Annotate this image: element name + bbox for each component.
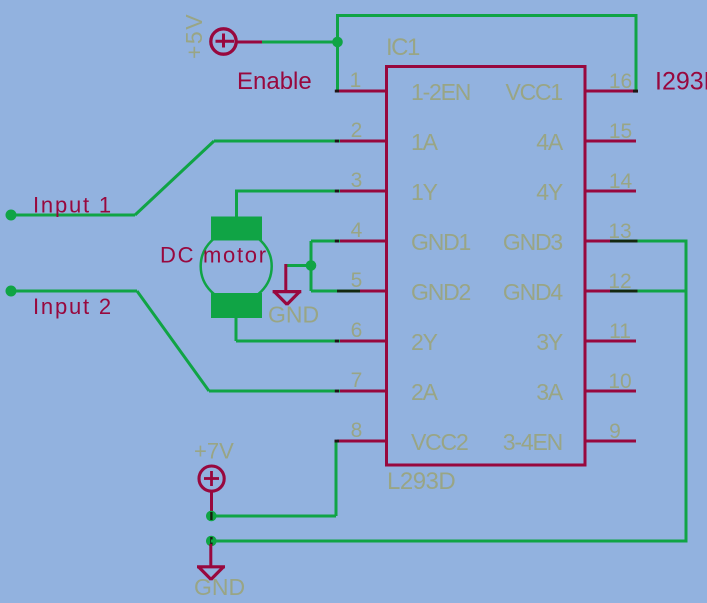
svg-text:I293D: I293D: [655, 68, 707, 96]
wire net INPUT2 diagonal: [137, 291, 209, 391]
overlap dark segment pin 5: [337, 290, 360, 293]
svg-text:2A: 2A: [411, 379, 439, 405]
wire bottom GND stem (maroon): [209, 544, 212, 567]
wire net ENABLE right vertical to pin 16: [635, 14, 638, 93]
pin 10 (3A): [536, 370, 636, 405]
svg-text:Enable: Enable: [237, 68, 312, 95]
wire net ENABLE left vertical to pin 1: [336, 14, 339, 93]
wire net INPUT1 to pin 2: [214, 140, 340, 143]
pin 5 (GND2): [337, 269, 471, 305]
svg-text:6: 6: [351, 319, 363, 342]
svg-text:1: 1: [350, 69, 362, 92]
svg-text:7: 7: [351, 369, 363, 392]
pin 3 (1Y): [337, 169, 438, 205]
pin 13 (GND3): [503, 220, 636, 255]
svg-text:15: 15: [609, 120, 632, 143]
wire GND1 net to pin 5: [311, 290, 360, 293]
pin 7 (2A): [337, 369, 439, 405]
wire motor bottom vertical: [235, 316, 238, 341]
svg-text:3: 3: [351, 169, 363, 192]
svg-text:3A: 3A: [536, 379, 564, 405]
svg-text:L293D: L293D: [387, 468, 455, 495]
overlap dark segment pin 12: [610, 290, 638, 293]
junction dot on GND1 net: [306, 260, 317, 271]
wire GND1 net left branch: [286, 264, 311, 267]
wire GND net to pin 13: [614, 240, 688, 243]
wire +5V source stub (maroon): [237, 41, 263, 44]
svg-text:1Y: 1Y: [411, 179, 438, 205]
overlap dark segment pin 8: [335, 440, 340, 443]
svg-text:9: 9: [609, 420, 621, 443]
svg-text:11: 11: [609, 320, 631, 343]
wire VCC2 net vertical from pin 8: [335, 441, 338, 516]
wire net ENABLE top horizontal: [336, 14, 638, 17]
pin 9 (3-4EN): [503, 420, 636, 455]
svg-text:4Y: 4Y: [536, 179, 563, 205]
ground symbol bottom: [197, 567, 225, 580]
wire net INPUT2 horizontal: [11, 290, 137, 293]
motor M1 body circle: [201, 231, 272, 302]
ground symbol near motor: [273, 292, 302, 305]
svg-text:4A: 4A: [536, 129, 564, 155]
junction dot at bottom GND node: [206, 536, 217, 547]
svg-text:8: 8: [351, 419, 363, 442]
wire GND1 net to pin 4: [311, 240, 340, 243]
pin 14 (4Y): [536, 170, 636, 205]
svg-text:GND4: GND4: [503, 279, 564, 305]
wire bottom GND net horizontal: [211, 540, 686, 543]
svg-text:Input 1: Input 1: [33, 193, 113, 218]
svg-text:3-4EN: 3-4EN: [503, 429, 562, 455]
svg-text:IC1: IC1: [386, 34, 420, 61]
wire bottom GND net right vertical: [685, 241, 688, 543]
junction dot on ENABLE net: [332, 37, 343, 48]
wire +7V stem (maroon): [210, 491, 213, 514]
svg-text:4: 4: [351, 219, 363, 242]
svg-text:14: 14: [609, 170, 633, 193]
svg-text:VCC2: VCC2: [411, 429, 468, 455]
node Input 2 terminal dot: [6, 286, 17, 297]
svg-text:Input 2: Input 2: [33, 294, 113, 319]
wire motor bottom to pin 6 horizontal: [236, 340, 340, 343]
svg-text:GND2: GND2: [411, 279, 471, 305]
motor M1 bottom terminal block: [211, 293, 262, 318]
svg-text:+7V: +7V: [194, 439, 234, 464]
svg-text:16: 16: [609, 70, 632, 93]
wire GND net to pin 12: [614, 290, 688, 293]
pin 15 (4A): [536, 120, 636, 155]
pin 12 (GND4): [503, 270, 636, 305]
pin 16 (VCC1): [505, 70, 636, 105]
svg-text:1A: 1A: [411, 129, 439, 155]
svg-text:GND1: GND1: [411, 229, 471, 255]
wire VCC2 net horizontal to +7V: [211, 515, 336, 518]
junction dot at +7V node: [206, 511, 217, 522]
wire motor top vertical: [235, 191, 238, 220]
overlap dark segment pin 16 corner: [633, 90, 638, 93]
overlap dark segment pin 1: [335, 90, 339, 93]
pin 11 (3Y): [536, 320, 636, 355]
pin 8 (VCC2): [337, 419, 468, 455]
svg-text:2: 2: [351, 119, 363, 142]
svg-text:+5V: +5V: [181, 13, 207, 59]
svg-text:GND: GND: [194, 574, 245, 600]
svg-text:GND: GND: [268, 302, 319, 328]
wire motor top to pin 3 horizontal: [235, 190, 340, 193]
pin 2 (1A): [337, 119, 439, 155]
svg-text:GND3: GND3: [503, 229, 563, 255]
power source +7V circle: [199, 466, 224, 491]
wire GND symbol stem (maroon): [284, 264, 287, 291]
wire net INPUT2 to pin 7: [209, 390, 340, 393]
power source +5V circle: [211, 29, 236, 54]
svg-text:5: 5: [351, 269, 363, 292]
svg-text:2Y: 2Y: [411, 329, 438, 355]
svg-text:1-2EN: 1-2EN: [411, 79, 470, 105]
overlap dark segment pin 2: [335, 140, 339, 143]
svg-text:VCC1: VCC1: [505, 79, 562, 105]
node Input 1 terminal dot: [6, 210, 17, 221]
overlap dark segment pin 3: [335, 190, 339, 193]
pin 4 (GND1): [337, 219, 471, 255]
svg-text:3Y: 3Y: [536, 329, 563, 355]
wire GND1 net vertical pin4-pin5: [310, 241, 313, 291]
overlap dark segment pin 7: [335, 390, 339, 393]
overlap dark segment pin 13: [610, 240, 638, 243]
overlap dark segment pin 6: [335, 340, 339, 343]
pin 6 (2Y): [337, 319, 438, 355]
wire net INPUT1 diagonal: [135, 141, 214, 215]
overlap dark segment pin 4: [335, 240, 339, 243]
motor M1 top terminal block: [211, 217, 262, 241]
pin 1 (1-2EN): [337, 69, 470, 105]
wire +5V to junction (green): [262, 41, 339, 44]
wire net INPUT1 horizontal: [11, 214, 135, 217]
svg-text:DC motor: DC motor: [160, 243, 268, 268]
svg-text:10: 10: [608, 370, 631, 393]
IC U1 body (L293D): [387, 67, 586, 466]
